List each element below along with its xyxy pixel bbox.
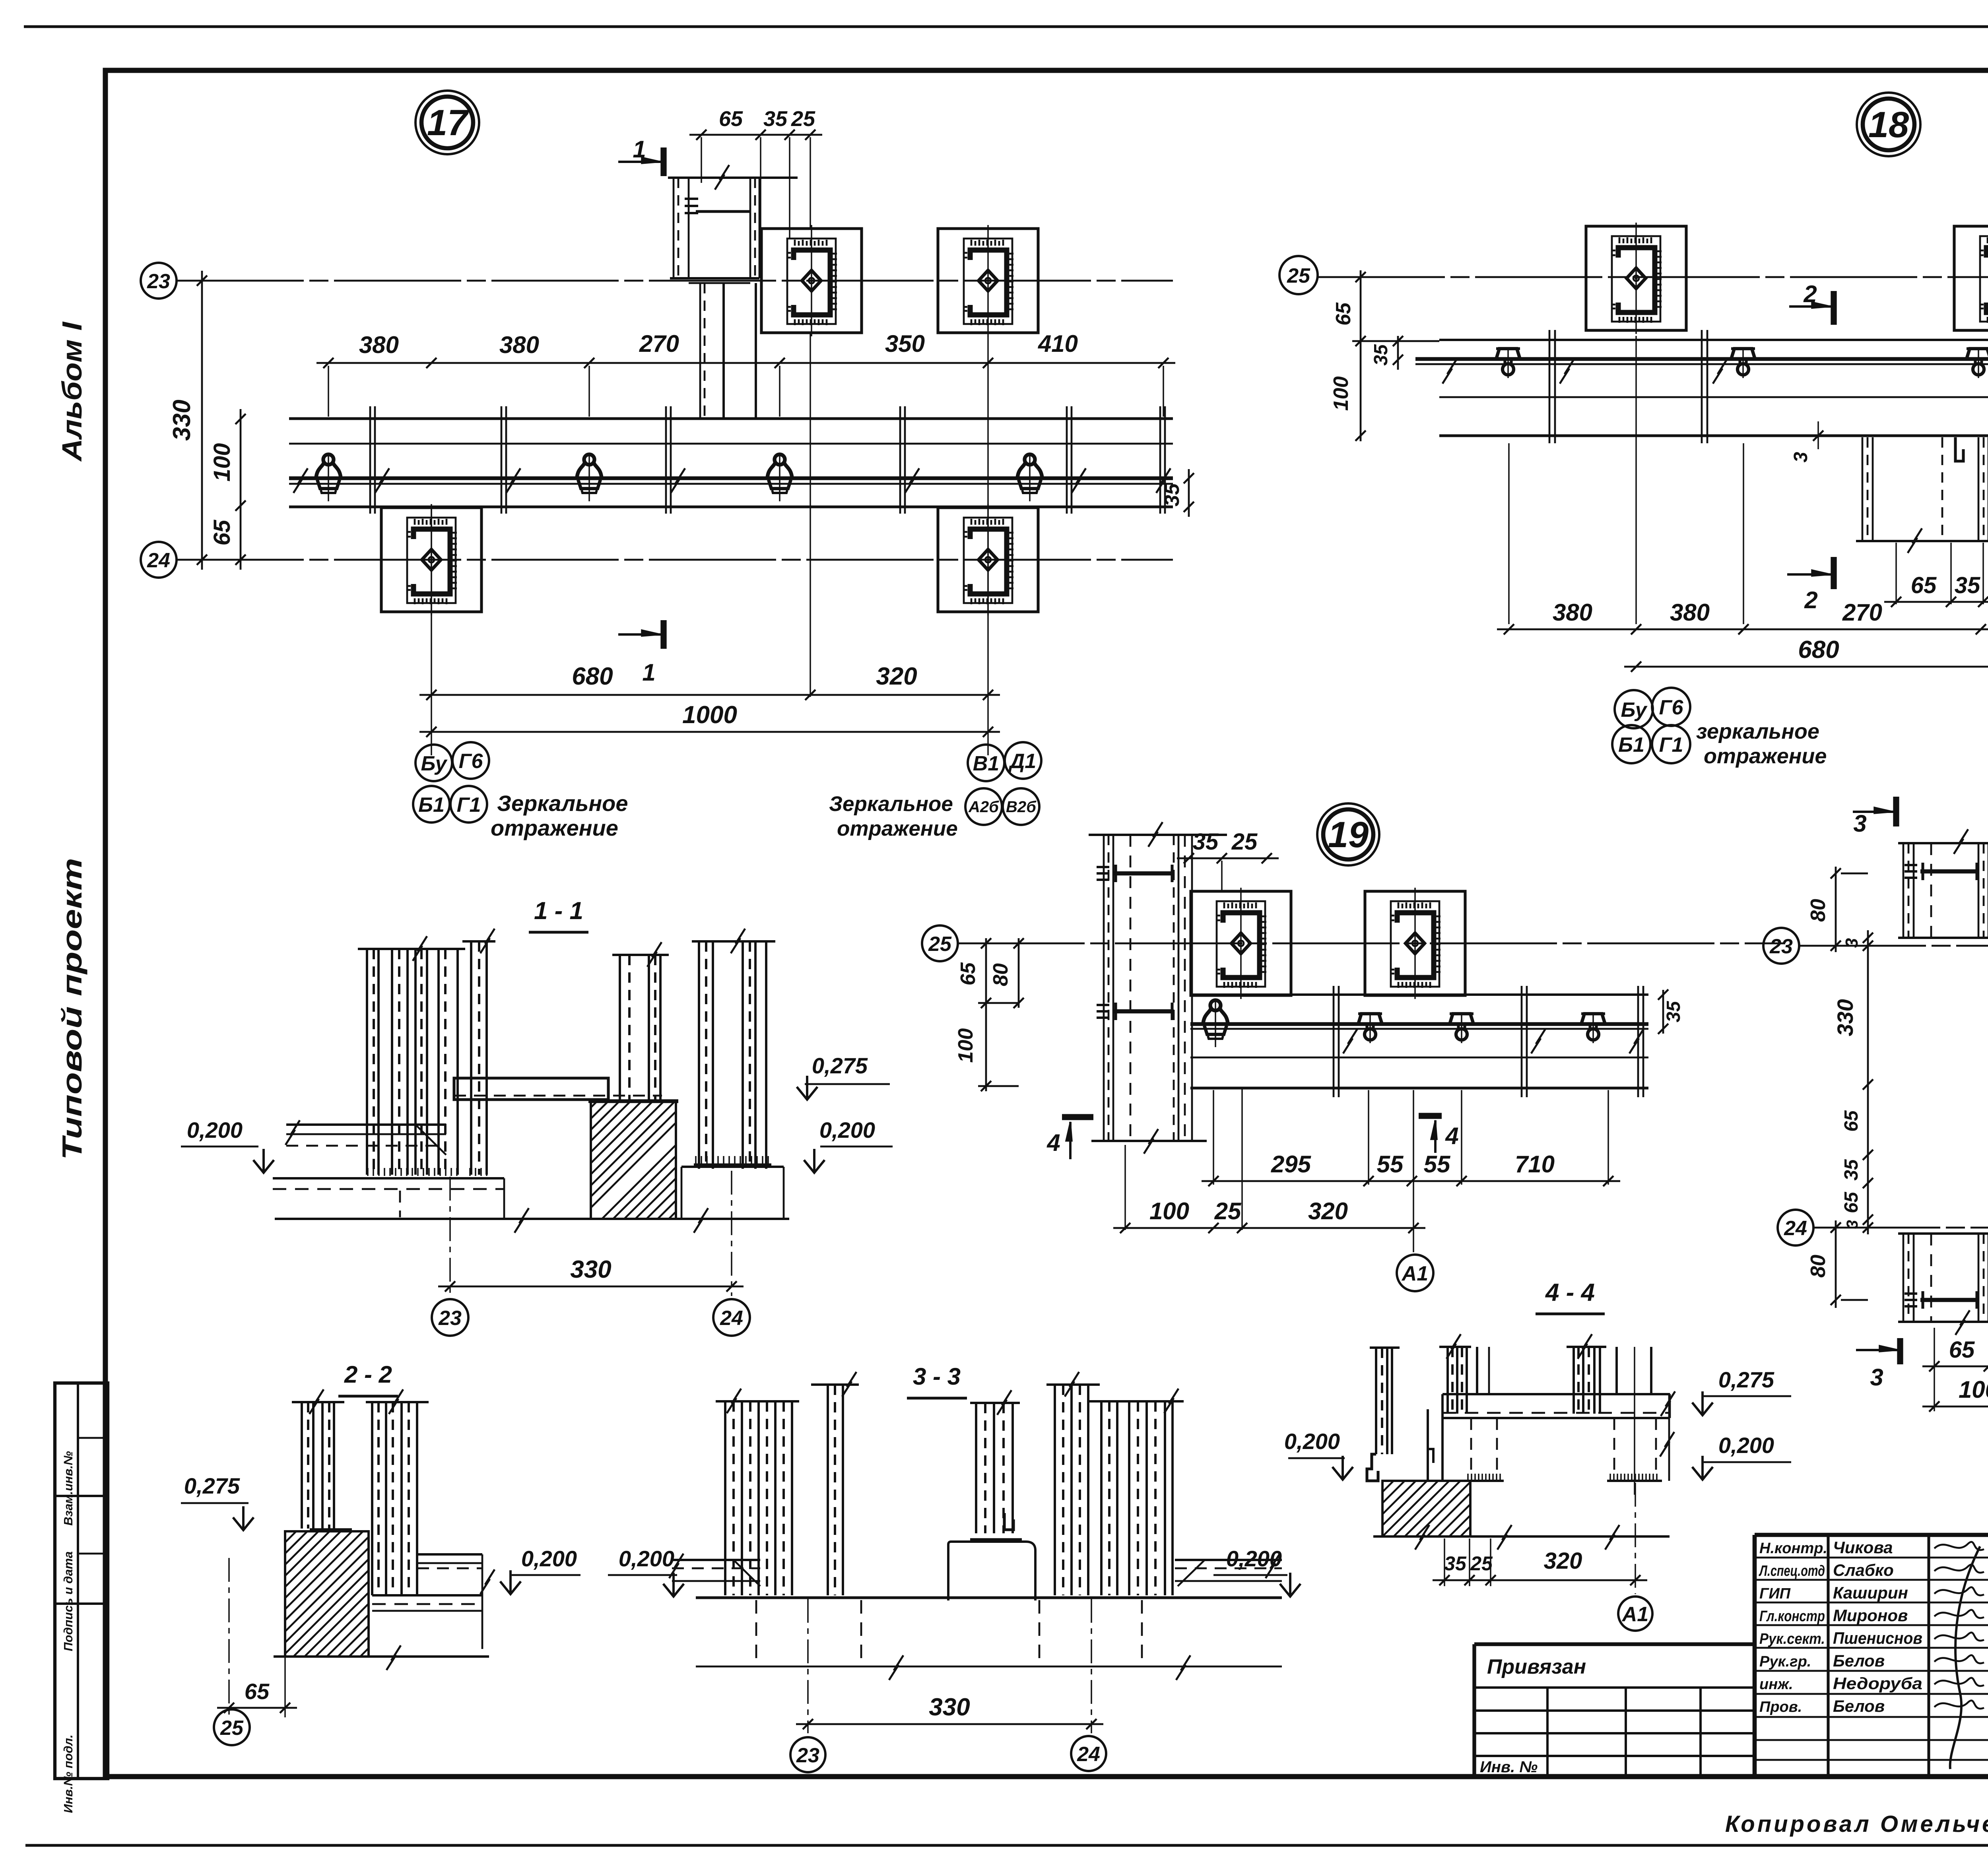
axis circle Бу [415,745,452,781]
section mark 3 [1897,1338,1903,1364]
right floor band 3-3 [1175,1559,1282,1561]
column foundation axis24 right [938,504,1038,615]
svg-text:отражение: отражение [1704,744,1827,768]
dims 100 25 320 detail20 bottom [1922,1406,1988,1408]
section mark 2 [1831,291,1837,325]
rail clamp large [1203,1000,1228,1047]
axis line 23 detail20 [1799,945,1988,947]
svg-text:295: 295 [1271,1151,1312,1178]
svg-text:680: 680 [572,663,613,690]
rail band top line [289,417,1173,420]
column detail below band 18 [1862,437,1864,540]
svg-text:0,200: 0,200 [521,1546,577,1571]
axis circle Г6 [1652,688,1690,726]
center witness axis23 foundation [810,137,811,229]
base line 2-2 [274,1655,489,1658]
rail joint tick pair [1066,406,1068,514]
svg-text:отражение: отражение [491,815,618,840]
svg-text:0,275: 0,275 [812,1053,868,1078]
axis line 23 [177,280,1173,282]
svg-text:35: 35 [1444,1552,1467,1575]
axis circle 24 [141,542,177,578]
svg-text:0,200: 0,200 [819,1117,875,1143]
columns group D section 1-1 [692,940,775,943]
connector line [696,210,750,213]
lower floor lines 2-2 [372,1594,482,1597]
hook profile 4-4 [1367,1454,1378,1481]
rail band bottom line [289,505,1173,508]
rail clamp [1967,347,1988,378]
detail18 left dim 35 [1397,336,1399,370]
columns single B 4-4 [1615,1347,1618,1393]
columns group B section 2-2 [366,1401,429,1403]
svg-text:В1: В1 [973,752,999,775]
bolt marks [685,198,698,200]
axis circle 25 [1279,256,1318,294]
privyazan rows [1474,1686,1755,1689]
svg-text:270: 270 [1842,599,1882,626]
svg-text:0,200: 0,200 [1226,1546,1282,1571]
svg-text:Инв. №: Инв. № [1480,1758,1538,1776]
detail19 left dim 80 [1018,938,1020,1008]
witness line [1213,1090,1214,1185]
svg-text:320: 320 [876,663,917,690]
svg-text:65: 65 [1949,1337,1975,1363]
axis line 25 detail 18 [1318,276,1988,278]
rail clamp [1581,1012,1605,1043]
svg-text:0,275: 0,275 [184,1473,240,1498]
rail break mark [1156,468,1171,493]
hatched block section 2-2 [285,1531,369,1657]
rail band rail thin line [289,483,1173,485]
foundation bottom 3-3 [696,1666,1282,1668]
svg-text:1: 1 [633,136,646,163]
I-beam connector detail20 top [1920,869,1978,874]
axis circle А1 [1397,1255,1433,1291]
axis circle 25 [214,1709,250,1745]
detail title circle 19 [1317,803,1379,865]
columns group A section 1-1 [358,948,465,950]
svg-text:Г6: Г6 [1659,696,1684,719]
svg-text:А1: А1 [1401,1262,1428,1285]
ground line 3-3 [696,1596,1282,1599]
svg-text:Взам.инв.№: Взам.инв.№ [61,1451,75,1526]
svg-text:35: 35 [763,107,788,131]
svg-text:Слабко: Слабко [1833,1561,1894,1579]
foundation edge dashed [755,1600,757,1665]
column bottom line 18 [1856,540,1988,542]
title block outer top line [1755,1533,1988,1537]
dim 1000 [419,731,1000,733]
title block left edge [1753,1535,1757,1776]
dims 35 25 top detail19 [1177,857,1279,859]
svg-text:65: 65 [1841,1110,1862,1132]
left floor band section 1-1 [286,1123,446,1126]
svg-text:4 - 4: 4 - 4 [1545,1279,1595,1306]
svg-text:Альбом I: Альбом I [56,321,87,462]
foundation edge dashed [860,1600,862,1665]
witness line [1934,1328,1935,1411]
rail break mark [1343,1029,1357,1053]
svg-text:330: 330 [1833,999,1858,1036]
dim row 380 380 270 350 410 [316,362,1175,364]
axis circle А1 [1618,1597,1652,1631]
J hook profile [1955,437,1963,461]
svg-text:35: 35 [1161,483,1184,506]
axis circle 24 [713,1299,750,1336]
svg-text:55: 55 [1424,1151,1451,1178]
dim 680 320 [419,694,1000,696]
bottom column detail20 [1898,1321,1988,1323]
detail18 rail thin [1415,363,1988,365]
svg-text:65: 65 [1911,572,1937,598]
rail joint tick pair [899,406,901,514]
svg-text:35: 35 [1841,1159,1862,1181]
svg-text:Бу: Бу [1621,698,1648,722]
witness lines to dim row [328,366,329,417]
section mark 1 [660,147,666,176]
rail joint tick pair [665,406,667,514]
columns group B 4-4 [1567,1346,1606,1348]
svg-text:100: 100 [1330,376,1353,411]
svg-text:25: 25 [791,107,815,131]
svg-text:24: 24 [147,549,170,572]
detail18 rail thick [1415,357,1988,361]
J hook middle column [1004,1513,1013,1530]
axis circle Б1 [1612,725,1650,763]
slab right end cut line [1668,1393,1670,1481]
top line bottom detail [1898,1232,1988,1235]
svg-text:320: 320 [1308,1198,1348,1224]
svg-text:330: 330 [929,1694,970,1721]
svg-text:Рук.сект.: Рук.сект. [1759,1631,1825,1647]
witness line [1508,443,1510,624]
detail20 left dim chain outer [1835,867,1837,952]
left profile section 4-4 [1370,1346,1400,1349]
middle column section 3-3 [970,1402,1020,1404]
rail clamp [1496,347,1520,378]
svg-text:1 - 1: 1 - 1 [534,897,583,925]
svg-text:Типовой проект: Типовой проект [56,858,87,1160]
rail break mark [506,468,520,493]
svg-text:410: 410 [1038,330,1078,357]
svg-text:Белов: Белов [1833,1651,1885,1670]
dims 35 25 320 section 4-4 [1433,1579,1647,1581]
svg-text:Белов: Белов [1833,1697,1885,1715]
rail clamp [316,454,341,501]
svg-text:23: 23 [796,1744,819,1767]
upper floor lines 2-2 [417,1553,482,1556]
signature table verticals [1827,1535,1829,1776]
svg-text:Зеркальное: Зеркальное [497,791,628,816]
witness line [1607,1090,1609,1185]
rail band rail thick line [289,476,1173,480]
svg-text:25: 25 [1287,264,1310,287]
svg-text:100: 100 [1149,1198,1189,1224]
svg-text:0,200: 0,200 [619,1546,674,1571]
axis line 24 detail20 [1813,1227,1988,1229]
rail joint tick pair [1701,330,1703,443]
detail18 left dims 65 100 [1360,270,1362,441]
svg-text:4: 4 [1046,1129,1060,1156]
rail break mark [1442,359,1457,384]
pedestal section 3-3 [948,1542,1035,1600]
svg-text:680: 680 [1798,636,1839,663]
axis circle Г6 [452,742,489,779]
column plan detail19 [1089,834,1227,836]
column base plates [694,1163,771,1166]
svg-text:23: 23 [147,270,170,293]
I-beam connector [1113,871,1174,876]
svg-text:19: 19 [1328,815,1369,855]
svg-text:65: 65 [245,1679,270,1704]
dims 65 35 25 detail18 [1884,601,1988,603]
I-beam connector [1113,1009,1174,1014]
svg-text:Б1: Б1 [418,793,445,817]
svg-text:зеркальное: зеркальное [1696,720,1819,743]
left floor band 3-3 [672,1559,760,1561]
svg-text:80: 80 [989,963,1012,986]
rail break mark [1713,359,1727,384]
svg-text:25: 25 [1470,1552,1493,1575]
detail18 band bottom line [1439,434,1988,437]
svg-text:35: 35 [1955,572,1980,598]
privyazan table outline [1474,1642,1755,1646]
plate on pedestal [970,1538,1022,1542]
svg-text:Гл.констр: Гл.констр [1759,1608,1825,1625]
svg-text:35: 35 [1663,1001,1684,1022]
svg-text:25: 25 [220,1717,244,1740]
svg-text:Чикова: Чикова [1833,1538,1893,1557]
rail clamp [1731,347,1755,378]
dims 100 25 320 [1113,1227,1425,1229]
margin stamp table [55,1383,108,1779]
svg-text:380: 380 [1553,599,1592,626]
foundation axis25 left [1586,223,1686,334]
axis circle 25 [922,925,958,961]
svg-text:Копировал Омельченко: Копировал Омельченко [1725,1811,1988,1837]
witness line [1124,1145,1126,1230]
svg-text:Пров.: Пров. [1759,1699,1802,1715]
svg-text:23: 23 [1769,935,1793,958]
svg-text:0,200: 0,200 [187,1117,243,1143]
section mark 4 [1419,1113,1442,1119]
hatched block 4-4 [1382,1481,1470,1536]
svg-text:ГИП: ГИП [1759,1585,1791,1602]
rail break mark [905,468,919,493]
columns group A section 2-2 [292,1401,344,1403]
svg-text:Г1: Г1 [457,793,481,817]
svg-text:Зеркальное: Зеркальное [829,792,953,816]
signature table rows [1755,1557,1988,1559]
column foundation axis23 left [761,225,862,336]
svg-text:Г6: Г6 [459,750,483,773]
axis line 25 detail19 [957,943,1785,945]
svg-text:А2б: А2б [968,798,999,816]
svg-text:380: 380 [499,332,539,358]
svg-text:330: 330 [570,1256,611,1283]
column foundation axis23 right [938,225,1038,336]
column bottom lines [670,277,759,279]
witness line [1368,1090,1369,1185]
svg-text:65: 65 [957,962,980,985]
detail18 rail band top line [1439,339,1988,341]
axis circle Д1 [1005,742,1041,779]
svg-text:Пшениснов: Пшениснов [1833,1629,1922,1647]
svg-text:Д1: Д1 [1008,750,1036,773]
svg-text:А1: А1 [1621,1603,1648,1626]
svg-text:380: 380 [1670,599,1710,626]
axis circle В1 [968,745,1004,781]
svg-text:25: 25 [928,933,952,956]
svg-text:380: 380 [359,332,399,358]
joint tick pair [1333,986,1335,1097]
column foundation axis24 left [381,504,481,615]
rail clamp [767,454,792,501]
column base ticks 4-4 [1467,1474,1469,1480]
rail break mark [671,468,685,493]
dim 330 section 1-1 [438,1286,744,1288]
svg-text:Бу: Бу [421,752,448,775]
svg-text:270: 270 [639,330,679,357]
foundation edge dashed [1039,1600,1041,1665]
axis circle В2б [1003,788,1039,825]
rail band detail19 [1190,993,1648,996]
slab section 4-4 [1442,1393,1670,1395]
svg-text:23: 23 [438,1307,462,1330]
ground base line section 1-1 [275,1218,789,1220]
svg-text:3 - 3: 3 - 3 [913,1363,961,1390]
svg-text:1000: 1000 [682,701,737,729]
detail20 left dim chain inner [1867,930,1869,1234]
svg-text:Б1: Б1 [1618,733,1644,757]
top column detail20 [1898,842,1988,844]
rail joint tick pair [501,406,503,514]
detail title circle 18 [1857,93,1920,156]
svg-text:2 - 2: 2 - 2 [344,1361,392,1388]
foundation axis25 mid [1954,223,1988,334]
svg-text:25: 25 [1214,1198,1242,1224]
svg-text:1: 1 [642,659,655,686]
svg-text:инж.: инж. [1759,1676,1793,1693]
dim 330 vertical [201,271,203,570]
svg-text:Привязан: Привязан [1487,1655,1586,1678]
svg-text:55: 55 [1377,1151,1404,1178]
svg-text:3: 3 [1853,810,1866,837]
dim 3 small [1817,421,1819,449]
axis circle 24 [1071,1736,1106,1771]
svg-text:3: 3 [1842,938,1862,948]
section mark 2 [1831,557,1837,589]
svg-text:18: 18 [1868,105,1909,145]
witness line [1743,443,1744,624]
svg-text:65: 65 [209,520,235,545]
rail joint tick pair [369,406,371,514]
dim 100 65 vertical [240,409,242,570]
privyazan columns [1546,1688,1549,1776]
foundation detail19 right [1365,888,1465,999]
axis circle 23 [1763,928,1799,964]
right dim 35 detail19 [1662,990,1664,1034]
witness line [1461,1090,1462,1185]
rail clamp [1450,1012,1474,1043]
axis circle 23 [432,1299,468,1336]
axis circle Б1 [413,786,450,823]
svg-text:65: 65 [1841,1191,1862,1213]
axis circle А2б [965,788,1002,825]
svg-text:Л.спец.отд: Л.спец.отд [1759,1563,1825,1579]
rail clamp [1358,1012,1382,1043]
svg-text:25: 25 [1231,829,1258,855]
rail joint tick pair [1549,330,1551,443]
rail break mark [293,468,308,493]
svg-text:3: 3 [1844,1220,1861,1229]
I-beam connector detail20 bottom [1920,1298,1978,1302]
rail joint tick pair [1159,406,1161,514]
column B section 1-1 [462,940,495,943]
columns group B section 3-3 [1089,1400,1184,1403]
top column detail of node 17 [668,177,798,179]
rail band second line [289,443,1173,445]
paper edge line bottom [25,1844,1988,1847]
svg-text:100: 100 [1959,1376,1988,1403]
base line 4-4 [1373,1535,1670,1538]
columns group C section 1-1 [612,954,669,956]
svg-text:24: 24 [720,1307,743,1330]
rail break mark [1072,468,1086,493]
svg-text:2: 2 [1804,587,1817,613]
rail clamp [1017,454,1042,501]
svg-text:100: 100 [954,1028,977,1063]
witness verticals lower dims [431,509,432,755]
witness line [1635,336,1637,624]
plate on hatch 2-2 [310,1528,352,1532]
second profile 4-4 [1427,1409,1429,1481]
svg-text:100: 100 [209,443,235,482]
dim 65 section 2-2 [217,1707,297,1709]
witness line [1413,1090,1414,1252]
svg-text:35: 35 [1371,344,1392,366]
svg-text:Недоруба: Недоруба [1833,1674,1922,1693]
svg-text:710: 710 [1515,1151,1555,1178]
rail break mark [1629,1029,1644,1053]
svg-text:Г1: Г1 [1659,733,1683,757]
rail break mark [1560,359,1574,384]
column bottom line detail20 top [1898,937,1988,939]
svg-text:24: 24 [1077,1743,1100,1766]
axis line 24 [177,559,1173,561]
detail18 band mid line [1439,396,1988,398]
joint tick pair [1637,986,1639,1097]
witness lines for top dims [701,137,702,183]
svg-text:330: 330 [168,400,196,440]
svg-text:80: 80 [1807,1255,1830,1278]
svg-text:320: 320 [1544,1548,1582,1574]
svg-text:Подпись и дата: Подпись и дата [61,1551,75,1651]
vertical member down to rail band [699,283,701,419]
rail break mark [375,468,389,493]
svg-text:Инв.№ подл.: Инв.№ подл. [61,1734,75,1813]
columns group B tall section 3-3 [1046,1383,1100,1386]
axis circle Бу [1615,690,1653,728]
hatched pier section 1-1 [588,1099,678,1103]
svg-text:Рук.гр.: Рук.гр. [1759,1653,1811,1670]
witness line [1241,1089,1243,1230]
svg-text:65: 65 [1332,302,1355,326]
svg-text:35: 35 [1193,829,1219,855]
svg-text:Миронов: Миронов [1833,1606,1908,1625]
svg-text:65: 65 [719,107,743,131]
